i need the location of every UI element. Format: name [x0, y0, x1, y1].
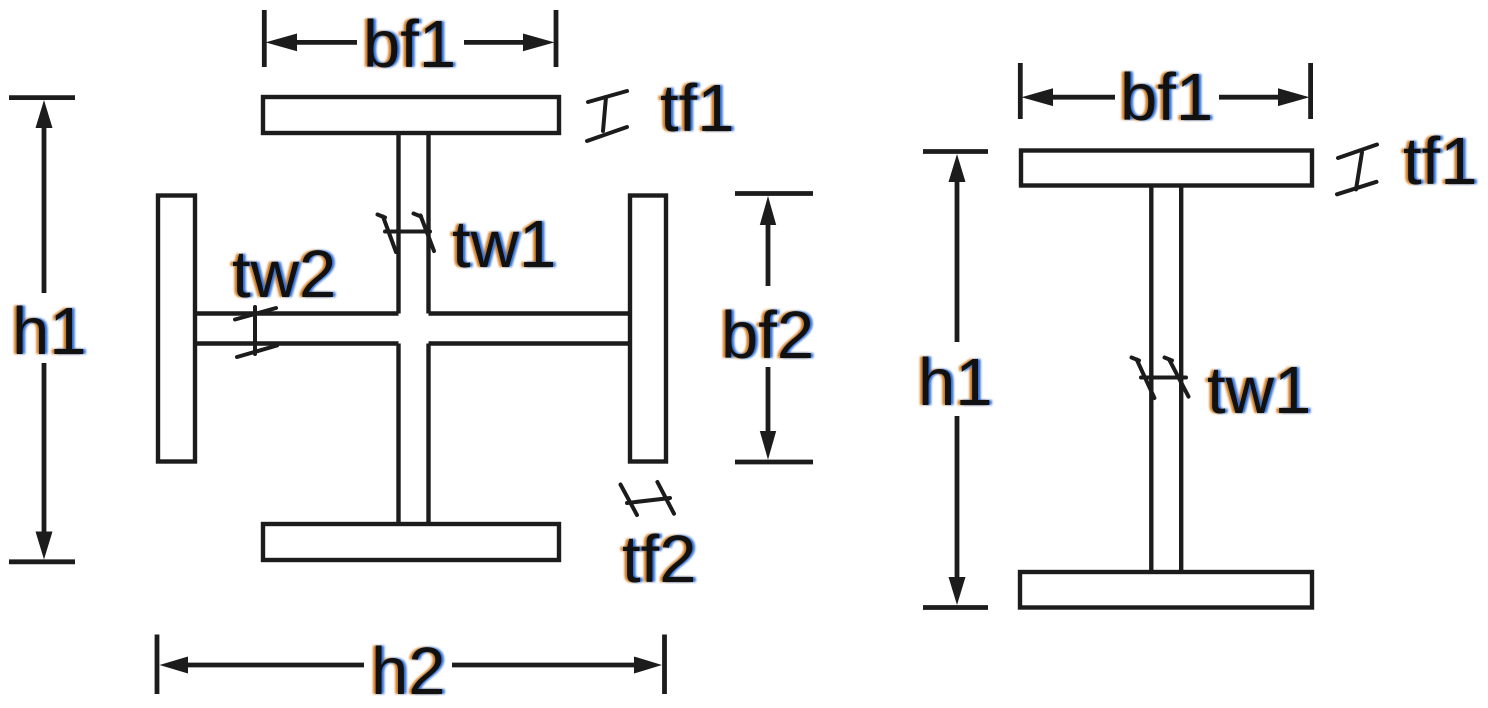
- bf1 dim line right: [464, 40, 526, 45]
- right h1 bottom tick: [923, 605, 988, 610]
- h1 dim line upper: [42, 125, 47, 293]
- vertical web right line lower: [426, 344, 430, 524]
- h2 dim line left: [184, 663, 364, 668]
- svg-text:tf2: tf2: [622, 522, 697, 597]
- h1 top tick: [9, 95, 75, 100]
- bf1 left arrow: [266, 34, 298, 52]
- h2 right tick: [662, 635, 667, 695]
- left-side vertical flange: [158, 196, 195, 462]
- svg-text:tw1: tw1: [452, 207, 556, 282]
- tw2 mark: [253, 307, 257, 354]
- bf2 bottom tick: [735, 460, 813, 465]
- label bf1 right: [1117, 60, 1215, 135]
- bf1 right tick: [554, 10, 559, 67]
- label tf2: [619, 522, 699, 597]
- right bf1 left arrow: [1022, 88, 1054, 106]
- svg-text:h2: h2: [371, 634, 446, 708]
- svg-text:tf1: tf1: [660, 71, 735, 146]
- bf2 up arrow: [760, 196, 776, 225]
- svg-text:tf1: tf1: [1403, 124, 1478, 199]
- right-side vertical flange: [630, 196, 666, 462]
- label tf1 right: [1400, 124, 1480, 199]
- vertical web left line lower: [396, 344, 400, 524]
- svg-text:h1: h1: [12, 294, 87, 369]
- svg-text:bf2: bf2: [721, 298, 814, 373]
- label h1 left: [9, 294, 89, 369]
- bf1 dim line left: [294, 40, 357, 45]
- right bf1 dim line left: [1048, 95, 1115, 100]
- right bf1 dim line right: [1219, 95, 1283, 100]
- label h1 right: [915, 345, 995, 420]
- right h1 dim line lower: [955, 416, 960, 581]
- right fig web right line: [1179, 187, 1183, 572]
- right tw1 mark: [1141, 376, 1186, 380]
- h1 up arrow: [36, 100, 53, 128]
- tf1 mark (slanted I): [588, 91, 627, 102]
- h1 bottom tick: [9, 559, 75, 564]
- h2 dim line right: [452, 663, 637, 668]
- label bf1 left: [360, 7, 458, 82]
- h2 right arrow: [634, 657, 662, 674]
- right bf1 right tick: [1308, 63, 1313, 119]
- h1 dim line lower: [42, 363, 47, 535]
- horizontal web bottom line left segment: [196, 341, 399, 345]
- label bf2: [718, 298, 816, 373]
- right bf1 right arrow: [1278, 88, 1310, 106]
- tf2 mark: [627, 498, 670, 503]
- horizontal web bottom line right segment: [429, 341, 630, 345]
- label tw2: [229, 237, 338, 312]
- bf1 right arrow: [523, 34, 555, 52]
- label tf1 left: [657, 71, 737, 146]
- svg-text:tw1: tw1: [1207, 353, 1311, 428]
- bf2 down arrow: [760, 431, 776, 460]
- svg-text:bf1: bf1: [363, 7, 456, 82]
- bf1 left tick: [262, 10, 267, 67]
- tw1 mark: [385, 230, 430, 234]
- right h1 dim line upper: [955, 179, 960, 342]
- right fig bottom flange: [1020, 572, 1312, 608]
- h1 down arrow: [36, 532, 53, 560]
- h2 left arrow: [160, 657, 189, 674]
- right h1 down arrow: [949, 577, 966, 605]
- bf2 top tick: [735, 191, 813, 196]
- right h1 top tick: [923, 149, 988, 154]
- label tw1 left: [449, 207, 558, 282]
- horizontal web top line left segment: [196, 311, 399, 315]
- bf2 dim line upper: [766, 223, 771, 286]
- bf2 dim line lower: [766, 367, 771, 434]
- left bottom flange: [263, 524, 559, 560]
- svg-text:bf1: bf1: [1120, 60, 1213, 135]
- right tf1 mark (slanted I): [1338, 145, 1377, 159]
- left top flange: [263, 97, 559, 133]
- h2 left tick: [155, 635, 160, 695]
- right fig web left line: [1149, 187, 1153, 572]
- svg-text:tw2: tw2: [232, 237, 336, 312]
- right bf1 left tick: [1018, 63, 1023, 119]
- horizontal web top line right segment: [429, 311, 630, 315]
- vertical web left line upper: [396, 135, 400, 314]
- svg-text:h1: h1: [918, 345, 993, 420]
- right h1 up arrow: [949, 154, 966, 182]
- right fig top flange: [1021, 151, 1312, 186]
- label h2: [368, 634, 448, 708]
- vertical web right line upper: [426, 135, 430, 314]
- label tw1 right: [1204, 353, 1313, 428]
